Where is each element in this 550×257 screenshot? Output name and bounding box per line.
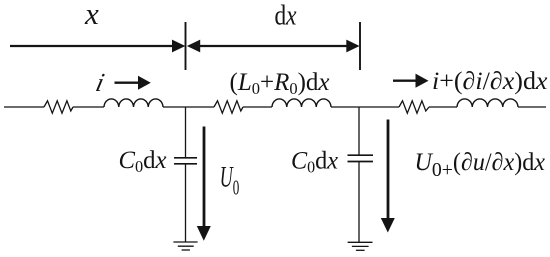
current arrow i+di [393, 74, 429, 88]
label C0dx (right) [291, 148, 338, 177]
label i (current) [93, 68, 107, 97]
wire left lead [4, 106, 44, 108]
svg-text:(L0+R0)dx: (L0+R0)dx [230, 69, 330, 98]
voltage arrow U0 [197, 127, 211, 241]
svg-text:U0: U0 [220, 162, 240, 200]
inductor L (section right) [457, 99, 518, 107]
svg-text:dx: dx [275, 1, 297, 32]
label dx (top dimension) [275, 1, 297, 32]
wire C0 down to ground (left) [185, 164, 187, 242]
resistor R (line section x) [44, 101, 73, 113]
svg-text:U0+(∂u/∂x)dx: U0+(∂u/∂x)dx [415, 149, 546, 181]
dimension arrow x [10, 40, 185, 53]
label U0 [220, 162, 240, 200]
label U0+(du/dx)dx [415, 149, 546, 181]
wire R to L right [429, 106, 457, 108]
wire L to node A [163, 106, 214, 108]
inductor L0dx [272, 99, 331, 107]
capacitor C0dx (right) [348, 155, 374, 161]
label x (top dimension) [84, 0, 99, 31]
ground (left) [173, 242, 197, 250]
label i+(di/dx)dx [432, 68, 548, 95]
svg-text:C0dx: C0dx [119, 147, 167, 176]
wire C0 down to ground (right) [358, 162, 360, 243]
capacitor C0dx (left) [174, 158, 197, 164]
label C0dx (left) [119, 147, 167, 176]
wire node B down to C0 (right) [358, 107, 360, 155]
wire R0 to L0 [243, 106, 272, 108]
label (L0+R0)dx [230, 69, 330, 98]
tick mark at node A [185, 22, 187, 70]
tick mark at node B [359, 22, 361, 70]
wire R to L [73, 106, 104, 108]
dimension arrow dx [187, 40, 360, 53]
ground (right) [348, 242, 373, 250]
wire node A down to C0 [185, 107, 187, 158]
resistor R0dx [214, 101, 243, 113]
svg-text:i+(∂i/∂x)dx: i+(∂i/∂x)dx [432, 68, 548, 95]
wire L0 to node B [331, 106, 399, 108]
inductor L (line section x) [104, 99, 163, 107]
wire right lead [518, 106, 546, 108]
svg-text:C0dx: C0dx [291, 148, 338, 177]
svg-text:i: i [93, 68, 107, 97]
voltage arrow U0+du [381, 120, 395, 233]
current arrow i [115, 76, 151, 90]
resistor R (section dx right) [399, 101, 429, 113]
svg-text:x: x [84, 0, 99, 31]
